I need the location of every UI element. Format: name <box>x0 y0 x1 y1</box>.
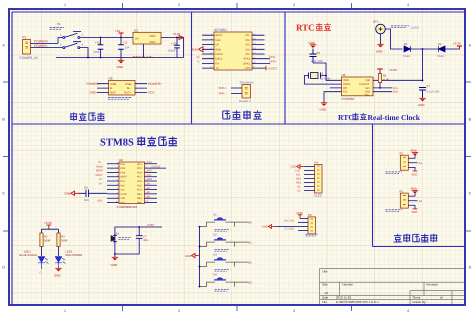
wires P3 <box>276 219 309 231</box>
wire crystal to chip <box>305 63 342 84</box>
svg-text:GND: GND <box>411 187 417 191</box>
svg-text:1: 1 <box>64 309 66 313</box>
svg-text:BEEP: BEEP <box>96 170 103 173</box>
svg-text:Vdd: Vdd <box>121 197 126 200</box>
svg-text:PD3: PD3 <box>121 167 126 170</box>
svg-text:RED-POWER: RED-POWER <box>66 254 83 257</box>
svg-text:VCC: VCC <box>245 67 251 70</box>
svg-text:Revision: Revision <box>427 283 439 287</box>
svg-text:Title: Title <box>322 270 328 274</box>
svg-text:+C1: +C1 <box>95 41 101 45</box>
svg-text:PC3: PC3 <box>137 171 142 174</box>
caption 红外传感器 <box>394 234 438 243</box>
svg-text:P1: P1 <box>23 35 27 39</box>
U2 pin numbers <box>116 161 148 203</box>
power port +5V <box>119 33 124 38</box>
comment 纽扣电池 (1220) <box>391 26 409 28</box>
svg-text:C: C <box>40 271 42 275</box>
svg-text:K3: K3 <box>213 254 217 257</box>
svg-text:+3.3V: +3.3V <box>453 42 461 46</box>
resistor R1 4.7K <box>378 74 381 83</box>
svg-text:GND: GND <box>309 41 317 45</box>
svg-text:GND: GND <box>411 149 417 153</box>
svg-text:PC7: PC7 <box>137 176 142 179</box>
battery BT1 <box>376 24 386 34</box>
svg-text:SPK-: SPK- <box>269 55 276 59</box>
svg-text:INT: INT <box>343 87 348 90</box>
svg-text:POWER+: POWER+ <box>148 82 162 86</box>
svg-text:B3: B3 <box>249 280 253 284</box>
charging module U5 <box>109 81 136 96</box>
svg-text:A2: A2 <box>419 199 423 203</box>
svg-text:DA2: DA2 <box>216 39 222 42</box>
svg-text:NRST: NRST <box>96 174 103 177</box>
svg-text:S1: S1 <box>57 22 61 26</box>
svg-text:SCL: SCL <box>393 87 399 90</box>
svg-text:OUT-: OUT- <box>110 92 117 95</box>
svg-text:GND: GND <box>185 254 191 258</box>
svg-text:NRST: NRST <box>121 176 128 179</box>
svg-text:LED2: LED2 <box>66 250 73 253</box>
svg-text:BLUE-SIGNAL: BLUE-SIGNAL <box>20 254 38 257</box>
svg-text:RTC: RTC <box>338 113 354 122</box>
svg-text:VDD: VDD <box>97 200 102 203</box>
svg-text:A1: A1 <box>419 161 423 165</box>
svg-text:AMS1117_3.3V: AMS1117_3.3V <box>133 55 153 59</box>
svg-text:DP: DP <box>216 44 220 47</box>
wire chip left INT/T/O <box>324 88 342 103</box>
power port VCC (P5) <box>413 170 418 172</box>
IR sensor header P5 <box>400 155 408 170</box>
comment 锂电池充电模块 <box>108 98 132 100</box>
power port GND (keys) <box>192 253 200 257</box>
svg-text:SDA: SDA <box>296 178 301 181</box>
svg-text:OUT: OUT <box>150 40 157 44</box>
push button K4 <box>199 274 253 292</box>
svg-text:4: 4 <box>407 3 409 7</box>
svg-text:P5: P5 <box>400 152 404 155</box>
svg-text:K2: K2 <box>213 234 217 237</box>
power port GND (C4) <box>71 191 79 195</box>
comment 光敏电阻 <box>119 238 132 240</box>
svg-text:OUT+: OUT+ <box>124 92 132 95</box>
caption RTC模块 Real-time Clock <box>352 113 366 120</box>
svg-text:B+: B+ <box>127 87 131 90</box>
svg-text:C: C <box>469 192 472 196</box>
capacitor C7 0.1uF <box>419 88 426 99</box>
wire photoresistor loop <box>115 227 162 257</box>
wires P5 <box>408 155 417 171</box>
svg-text:CS: CS <box>297 190 301 193</box>
svg-text:IO4: IO4 <box>246 48 251 51</box>
power port VCC (P6) <box>413 208 418 210</box>
svg-text:Header 2: Header 2 <box>239 99 251 103</box>
svg-text:RTC: RTC <box>296 22 315 32</box>
svg-text:PD1: PD1 <box>137 163 142 166</box>
svg-text:USB-: USB- <box>110 83 117 86</box>
svg-text:File: File <box>322 300 327 304</box>
svg-text:Real-time Clock: Real-time Clock <box>368 113 421 122</box>
svg-text:RES: RES <box>296 182 301 185</box>
power port GND (LED2) <box>55 268 61 271</box>
GND power port <box>120 58 122 61</box>
svg-text:U2: U2 <box>119 158 123 162</box>
svg-text:PD4: PD4 <box>121 163 126 166</box>
svg-text:D1: D1 <box>404 42 408 46</box>
wire switch to regulator rail <box>56 38 184 58</box>
svg-text:15pF 50V: 15pF 50V <box>311 59 323 63</box>
svg-text:GND: GND <box>216 48 222 51</box>
svg-text:GND: GND <box>291 166 297 169</box>
svg-text:GND: GND <box>191 48 199 52</box>
svg-text:IO3: IO3 <box>246 44 251 47</box>
wire D2 to +3.3V <box>445 48 458 50</box>
svg-text:POWER-: POWER- <box>87 82 100 86</box>
pin numbers <box>211 33 257 69</box>
svg-text:B2: B2 <box>249 260 253 264</box>
svg-text:SWIM: SWIM <box>96 165 103 168</box>
svg-text:PC6: PC6 <box>137 180 142 183</box>
svg-text:OUT: OUT <box>150 34 157 38</box>
svg-text:TX_RXD: TX_RXD <box>284 228 294 231</box>
speaker header P2 <box>242 85 251 99</box>
svg-text:WT588D: WT588D <box>214 28 227 32</box>
svg-text:PC4: PC4 <box>137 189 142 192</box>
wires P4 <box>304 167 315 191</box>
resistor R3 560R <box>57 233 60 247</box>
svg-text:D:\MC\STM8S105F4P6 1 & O.T..: D:\MC\STM8S105F4P6 1 & O.T.. <box>336 300 380 304</box>
svg-text:U5: U5 <box>109 76 113 80</box>
svg-text:C6: C6 <box>317 51 321 55</box>
svg-text:2: 2 <box>178 3 180 7</box>
svg-text:+5VCC: +5VCC <box>268 66 279 70</box>
svg-text:PC5: PC5 <box>137 184 142 187</box>
svg-text:POWER_IN: POWER_IN <box>20 56 39 60</box>
svg-text:1: 1 <box>64 3 66 7</box>
comment 红外传感器1 <box>386 172 403 174</box>
ground below chip <box>321 103 327 106</box>
wires U3 pins <box>202 35 270 68</box>
svg-text:SPK2: SPK2 <box>244 58 251 61</box>
svg-text:PB4: PB4 <box>137 193 142 196</box>
svg-text:VCAP: VCAP <box>121 193 128 196</box>
svg-text:3: 3 <box>293 309 295 313</box>
svg-text:DACR: DACR <box>216 53 223 56</box>
svg-text:560R: 560R <box>61 240 67 243</box>
diode D1 SS14 <box>404 46 411 52</box>
svg-text:R2: R2 <box>44 236 48 239</box>
svg-text:R3: R3 <box>61 236 65 239</box>
comment 红外传感器2 <box>386 210 403 212</box>
svg-text:+C3: +C3 <box>171 42 177 46</box>
svg-text:STM8S003F3P6: STM8S003F3P6 <box>117 205 138 209</box>
svg-text:SPK+: SPK+ <box>269 60 277 64</box>
power port GND (P5) <box>412 153 418 156</box>
svg-text:+3.3V: +3.3V <box>296 211 304 215</box>
svg-text:3: 3 <box>293 3 295 7</box>
svg-text:BT1: BT1 <box>373 20 379 24</box>
svg-text:GND: GND <box>65 192 73 196</box>
svg-text:PB0: PB0 <box>137 202 142 205</box>
capacitor C7 104 <box>136 236 143 239</box>
svg-text:104: 104 <box>84 198 89 202</box>
svg-text:D2: D2 <box>438 42 442 46</box>
LED2 RED-POWER <box>58 247 60 257</box>
svg-text:RX_TXD: RX_TXD <box>284 220 294 223</box>
svg-text:P4: P4 <box>315 160 319 164</box>
capacitor C6 15pF <box>310 49 317 63</box>
svg-text:IO1: IO1 <box>246 34 251 37</box>
svg-text:A4: A4 <box>325 291 329 295</box>
svg-text:GND: GND <box>117 65 125 69</box>
net labels P4 <box>295 170 301 193</box>
title block <box>320 269 465 304</box>
svg-text:CLKOUT: CLKOUT <box>359 83 370 86</box>
svg-text:104: 104 <box>143 239 148 242</box>
svg-text:D: D <box>2 266 5 270</box>
wires U5 pins <box>97 84 147 93</box>
svg-text:C: C <box>2 192 5 196</box>
wire battery <box>381 29 403 49</box>
net labels U2 right <box>147 161 160 203</box>
MCU U2 STM8S003F3P6 <box>119 162 145 204</box>
svg-text:GND: GND <box>111 263 117 267</box>
svg-text:GND: GND <box>376 49 382 53</box>
svg-text:GND: GND <box>262 226 268 229</box>
svg-text:STM8S: STM8S <box>100 138 134 149</box>
svg-text:B1: B1 <box>249 240 253 244</box>
svg-text:SS14: SS14 <box>437 55 444 58</box>
svg-text:OLED: OLED <box>314 194 322 198</box>
regulator U1 AMS1117 <box>133 32 161 44</box>
svg-text:IN: IN <box>136 37 139 41</box>
power port GND (photo) <box>112 257 118 260</box>
svg-text:D: D <box>469 266 472 270</box>
svg-text:K4: K4 <box>213 274 217 277</box>
svg-text:+3.3V: +3.3V <box>44 221 52 225</box>
svg-text:VCC: VCC <box>412 210 418 214</box>
svg-text:GND: GND <box>90 91 98 95</box>
wire U1 out to +3.3V <box>161 38 184 58</box>
svg-text:C7: C7 <box>427 84 431 88</box>
svg-text:Drawn By:: Drawn By: <box>413 300 427 304</box>
comment 蓝牙模块 <box>306 234 319 236</box>
svg-text:P6: P6 <box>400 190 404 193</box>
svg-text:TX: TX <box>216 67 220 70</box>
svg-text:4: 4 <box>407 309 409 313</box>
svg-text:PA2: PA2 <box>121 184 126 187</box>
caption 电源管理 (power management) <box>70 113 105 121</box>
svg-text:SPK+: SPK+ <box>219 86 227 90</box>
svg-text:Y1: Y1 <box>320 72 324 76</box>
svg-text:GND: GND <box>54 273 60 277</box>
svg-text:DACL: DACL <box>216 58 223 61</box>
connector P1 <box>23 40 31 55</box>
OLED header P4 <box>315 165 323 194</box>
svg-text:TXD: TXD <box>147 161 152 164</box>
bluetooth header P3 <box>308 217 316 234</box>
svg-text:IO2: IO2 <box>246 39 251 42</box>
photoresistor R4 <box>114 234 116 244</box>
svg-text:PA1: PA1 <box>121 180 126 183</box>
svg-text:SCL: SCL <box>366 87 371 90</box>
svg-text:U1: U1 <box>134 28 138 32</box>
push button K1 <box>199 214 253 232</box>
diode D2 SS14 <box>439 46 446 52</box>
svg-text:RXD: RXD <box>147 170 152 173</box>
wires P6 <box>408 193 417 209</box>
svg-text:C7: C7 <box>143 235 147 238</box>
svg-text:104: 104 <box>125 46 130 50</box>
wire LED rail <box>42 229 59 233</box>
svg-text:RX: RX <box>216 62 220 65</box>
svg-text:SCL: SCL <box>147 174 152 177</box>
svg-text:3.3V: 3.3V <box>295 170 300 173</box>
svg-text:OSCO: OSCO <box>343 83 350 86</box>
RTC chip U6 PCF8563 <box>342 77 374 96</box>
capacitor C1 100uF <box>98 45 104 49</box>
wires speaker <box>231 88 242 94</box>
IR sensor header P6 <box>400 193 408 208</box>
svg-text:VCC: VCC <box>148 91 155 95</box>
svg-text:SDA: SDA <box>147 178 152 181</box>
svg-text:+3.3VDD: +3.3VDD <box>150 165 160 168</box>
svg-text:OSCI: OSCI <box>343 79 349 82</box>
svg-text:2: 2 <box>178 309 180 313</box>
power port GND (battery) <box>377 44 383 47</box>
svg-text:4.7K: 4.7K <box>383 78 389 82</box>
svg-text:+3.3V: +3.3V <box>389 68 397 72</box>
power port GND (P6) <box>412 191 418 194</box>
svg-text:B0: B0 <box>249 220 253 224</box>
power port GND (P4) <box>297 165 304 169</box>
crystal Y1 32.768K <box>311 73 319 79</box>
capacitor C3 100uF <box>174 45 180 48</box>
svg-text:PC2: PC2 <box>137 167 142 170</box>
svg-text:RX: RX <box>197 56 201 59</box>
svg-text:U6: U6 <box>342 73 346 77</box>
svg-text:560R: 560R <box>44 240 50 243</box>
push button K2 <box>199 234 253 252</box>
svg-text:BUSY: BUSY <box>216 34 223 37</box>
svg-text:GND: GND <box>320 107 326 111</box>
power port GND (C7) <box>419 98 425 101</box>
svg-text:P3: P3 <box>308 213 312 217</box>
LED1 BLUE-SIGNAL <box>41 247 43 257</box>
svg-text:C4: C4 <box>84 185 88 189</box>
wires chip right <box>373 80 423 91</box>
svg-text:USB+: USB+ <box>125 83 133 86</box>
power port GND (left of U3) <box>199 47 204 52</box>
svg-text:32.768K: 32.768K <box>320 76 331 80</box>
capacitor C4 <box>79 190 107 198</box>
wires U2 right pins <box>145 164 167 203</box>
svg-text:C2: C2 <box>124 41 128 45</box>
svg-text:PD6: PD6 <box>121 171 126 174</box>
wire P1 to switch <box>31 38 63 48</box>
svg-text:PB5: PB5 <box>137 197 142 200</box>
svg-text:C: C <box>147 200 149 203</box>
svg-text:GND: GND <box>418 103 424 107</box>
svg-text:100uF: 100uF <box>168 49 176 53</box>
svg-text:(1220): (1220) <box>411 26 419 30</box>
svg-text:DC: DC <box>297 186 301 189</box>
wire diode junction <box>411 49 439 81</box>
svg-text:B-: B- <box>110 87 113 90</box>
svg-text:SPK-: SPK- <box>219 92 226 96</box>
svg-text:of: of <box>440 296 443 300</box>
net labels U2 left <box>96 161 104 203</box>
svg-text:IO5: IO5 <box>246 53 251 56</box>
power port +5V right <box>265 66 267 70</box>
svg-text:K1: K1 <box>213 214 217 217</box>
svg-text:Number: Number <box>343 283 354 287</box>
common ground wire for keys <box>199 227 201 287</box>
svg-text:0.1uF 50V: 0.1uF 50V <box>427 90 440 94</box>
svg-text:SPK1: SPK1 <box>244 62 251 65</box>
voice chip U3 WT588D <box>214 32 252 70</box>
svg-text:+3.3V: +3.3V <box>147 223 155 227</box>
svg-text:PCF8563: PCF8563 <box>342 97 355 101</box>
power port +3.3V (R1 top) <box>377 69 383 71</box>
svg-text:TX: TX <box>197 61 200 64</box>
caption 语音模块 (voice module) <box>223 111 262 120</box>
svg-text:SS14: SS14 <box>403 55 410 58</box>
svg-text:Vdd: Vdd <box>366 79 371 82</box>
power port GND (P3) <box>268 225 275 229</box>
resistor R2 560R <box>40 233 43 247</box>
push button K3 <box>199 254 253 272</box>
wires U2 left pins <box>107 164 119 203</box>
svg-text:VCC: VCC <box>412 172 418 176</box>
svg-text:POWER-: POWER- <box>34 44 48 48</box>
power port +3.3V right <box>457 46 462 49</box>
capacitor C2 104 <box>118 45 124 49</box>
power port GND top <box>310 45 316 48</box>
svg-text:SCL: SCL <box>296 174 301 177</box>
svg-text:SPEAKER: SPEAKER <box>240 81 255 85</box>
svg-text:Size: Size <box>322 283 328 287</box>
svg-text:T/O: T/O <box>343 91 347 94</box>
power port +3.3V <box>179 36 184 40</box>
svg-text:LED1: LED1 <box>24 250 31 253</box>
svg-text:+5V: +5V <box>115 29 120 33</box>
svg-text:+3.3V: +3.3V <box>173 32 181 36</box>
svg-text:SDA: SDA <box>393 91 399 94</box>
svg-text:100uF: 100uF <box>94 50 102 54</box>
